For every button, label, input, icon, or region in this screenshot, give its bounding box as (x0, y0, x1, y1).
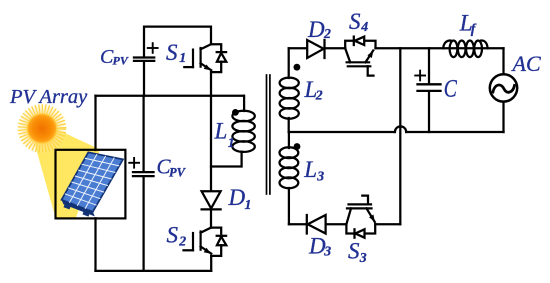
svg-text:L: L (214, 118, 228, 143)
svg-text:3: 3 (323, 244, 331, 259)
svg-text:4: 4 (360, 19, 368, 34)
svg-text:3: 3 (316, 168, 324, 183)
svg-text:2: 2 (315, 87, 323, 102)
svg-text:S: S (166, 40, 178, 65)
svg-text:PV: PV (113, 54, 129, 68)
svg-text:PV Array: PV Array (9, 86, 88, 108)
svg-text:C: C (444, 74, 458, 102)
svg-text:1: 1 (245, 197, 252, 212)
svg-text:D: D (308, 233, 326, 258)
svg-text:2: 2 (178, 234, 186, 249)
svg-text:S: S (167, 223, 179, 248)
svg-text:2: 2 (323, 26, 331, 41)
svg-text:L: L (303, 157, 317, 182)
svg-text:1: 1 (179, 50, 186, 65)
svg-text:1: 1 (228, 135, 235, 150)
svg-text:S: S (348, 239, 360, 264)
svg-text:3: 3 (359, 250, 367, 265)
svg-text:D: D (307, 17, 325, 42)
svg-text:D: D (228, 185, 246, 210)
svg-text:S: S (349, 9, 361, 34)
svg-text:AC: AC (511, 51, 541, 76)
svg-text:f: f (471, 21, 477, 36)
svg-text:PV: PV (169, 166, 187, 180)
